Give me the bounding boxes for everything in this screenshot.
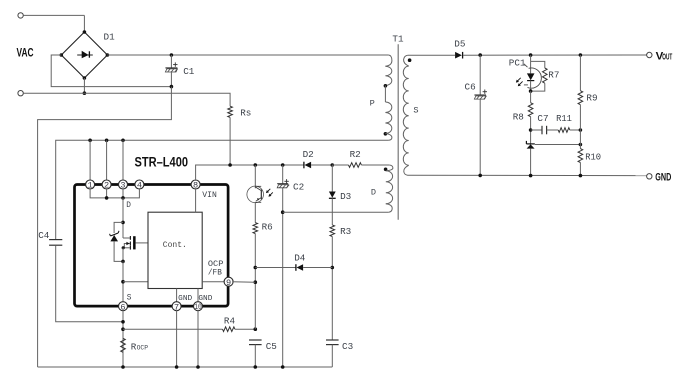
wire zener anode to ground [530,149,532,176]
diode D2 [303,162,305,169]
resistor R6 [253,223,258,234]
capacitor C1 [170,55,172,68]
svg-text:D3: D3 [340,191,351,202]
wire gate to controller [136,242,148,244]
wire S net to R4 [123,328,223,330]
wire C3 to ground [331,345,333,367]
node drain pin1 [88,139,92,143]
transistor Q1 mosfet [123,237,130,239]
resistor Rs [228,106,233,117]
wire D5 to Vout [463,54,647,56]
svg-text:C5: C5 [266,341,277,352]
pin 2 [102,180,111,189]
svg-text:C1: C1 [183,66,195,77]
resistor R9 [579,53,583,57]
capacitor C6 [479,55,481,95]
wire pin6 down [122,310,124,367]
bridge rectifier D1 [61,32,107,78]
svg-text:OUT: OUT [662,52,672,61]
phototransistor PC1 primary side [254,165,256,188]
svg-text:D5: D5 [454,38,465,49]
svg-text:R6: R6 [262,222,273,233]
secondary ground rail [408,174,647,176]
node drain pin3 [121,139,125,143]
wire pin9 to FB net [232,281,255,284]
transformer T1 core [397,44,399,220]
capacitor C3 [326,339,339,341]
resistor R3 [330,225,335,237]
wire source to pin 6 [122,261,124,302]
svg-text:T1: T1 [392,34,404,45]
pin 4 [135,180,144,189]
wire pin jumper D [90,188,139,198]
svg-text:S: S [413,105,418,115]
svg-text:D1: D1 [104,32,116,43]
svg-text:OCP: OCP [137,344,149,352]
svg-text:GND: GND [178,295,192,303]
node C1 bottom [170,85,174,89]
resistor R8 [530,91,532,103]
svg-text:VAC: VAC [17,46,34,60]
wire pin3 drop [122,140,124,180]
node drain internal [121,221,125,225]
node divider top [579,128,583,132]
svg-text:C4: C4 [38,230,50,241]
svg-text:R7: R7 [548,70,559,81]
IC U1 STR-L400 body [75,185,229,307]
node PC1 top [529,53,533,57]
pin 6 [119,302,128,311]
svg-text:D: D [126,202,131,210]
node C6 [478,53,482,57]
transformer secondary S [404,55,409,66]
svg-text:Rs: Rs [240,107,251,118]
wire D2 to node [311,164,332,166]
svg-text:C6: C6 [465,81,476,92]
svg-text:D2: D2 [303,149,314,160]
node primary tap top [384,84,388,88]
light arrows into phototransistor [267,189,271,193]
pin 10 [194,302,203,311]
node D3 top [331,163,335,167]
resistor R2 [349,163,362,168]
transformer primary P [385,55,392,66]
capacitor C7 [531,129,542,131]
terminal AC line input [18,13,23,18]
wire pin1 drop [89,140,91,180]
wire controller to source [123,281,148,283]
node LED cathode [529,89,533,93]
wire controller gnd pins [176,289,178,303]
pin 9 [224,277,233,286]
wire secondary top to D5 [408,54,455,56]
resistor R10 [578,149,583,163]
wire pin2 drop [106,140,108,180]
terminal AC neutral input [18,91,23,96]
photocoupler PC1 LED [530,55,532,73]
svg-text:R9: R9 [586,93,597,104]
node C1 top [170,53,174,57]
svg-text:R4: R4 [224,316,236,327]
wire pin8 vin riser [196,165,304,181]
svg-text:R3: R3 [340,226,351,237]
transformer primary P lower [385,102,391,134]
wire C5 to ground [254,345,256,367]
diode D3 [331,165,333,192]
wire [83,15,85,32]
node aux dot [384,168,388,172]
capacitor C2 [282,165,284,184]
light arrows out of LED [516,78,520,82]
svg-text:D4: D4 [294,253,306,264]
wire zener cathode to divider [535,144,581,146]
transformer aux winding D [386,165,393,171]
svg-text:GND: GND [198,295,212,303]
node D4 right [331,266,335,270]
wire to body zener [114,222,123,233]
pin 3 [119,180,128,189]
controller Cont. box [148,212,202,288]
wire D3 to R3 [331,198,333,225]
wire C4 bottom to S net [56,245,123,322]
wire bridge left vertex to DC minus [51,55,171,87]
wire zener anode to source [114,241,123,261]
pin 8 [191,180,200,189]
pin 1 [86,180,95,189]
node R4 line join [121,327,125,331]
resistor R7 parallel [531,61,545,68]
wire R2 to winding [361,164,389,166]
node aux winding return [281,210,285,214]
diode D5 [455,52,462,59]
resistor Rocp [121,338,126,352]
diode D4 [255,267,296,269]
svg-text:R10: R10 [585,152,601,162]
capacitor C5 [249,339,262,341]
wire pin7 down [176,310,178,367]
node Rs join [228,163,232,167]
wire aux return [283,211,389,213]
node drain pin2 [105,139,109,143]
wire node to R2 [332,164,348,166]
node R4 FB [254,327,258,331]
node pin9 join [254,280,258,284]
node phototransistor join [254,163,258,167]
primary ground rail [38,366,333,368]
svg-text:/FB: /FB [208,270,222,278]
svg-text:GND: GND [655,172,671,184]
node feedback [529,128,533,132]
svg-text:9: 9 [226,278,231,288]
wire primary mid [384,85,386,102]
terminal Vout [647,52,652,57]
svg-text:C2: C2 [293,182,304,193]
node C4 join [121,320,125,324]
wire R6 to FB net [254,234,256,330]
svg-text:Cont.: Cont. [163,240,187,250]
resistor R4 [223,327,235,332]
node source join [121,260,125,264]
wire drain line [56,140,389,239]
wire pin8 to controller [195,188,197,212]
svg-text:C7: C7 [537,113,548,124]
svg-text:P: P [370,99,375,109]
wire [23,14,84,16]
svg-text:PC1: PC1 [509,58,526,69]
terminal GND [647,174,652,179]
svg-text:R8: R8 [513,111,524,122]
svg-text:D: D [371,187,376,197]
wire AC neutral rail [23,93,230,106]
svg-text:R2: R2 [350,149,361,160]
zener body diode [110,233,118,236]
capacitor C4 [49,239,62,241]
node controller source [121,280,125,284]
svg-text:VIN: VIN [202,191,217,200]
wire DC minus down-left [38,87,172,367]
wire DC plus top rail [107,54,388,56]
svg-text:R11: R11 [556,114,572,124]
wire pin10 down [197,310,199,367]
resistor R11 [547,129,559,131]
svg-text:STR–L400: STR–L400 [135,155,189,171]
wire controller to pin9 [202,281,225,283]
node divider mid [579,143,583,147]
wire R3 down [331,237,333,341]
zener diode feedback [526,143,534,145]
svg-text:S: S [127,294,132,302]
wire Rs to VIN node [229,117,231,165]
wire drain to mosfet [122,198,124,238]
wire emitter to R6 [254,203,256,223]
wire source down [122,248,124,262]
svg-text:C3: C3 [342,341,353,352]
node secondary polarity dot [408,58,412,62]
svg-text:OCP: OCP [208,261,224,269]
node C2 join [281,163,285,167]
wire R4 to FB node [235,328,255,330]
wire bridge bottom to neutral rail [83,78,85,93]
node primary tap bottom [384,132,388,136]
wire R8 to node [530,117,532,144]
pin 7 [172,302,181,311]
node D4 join [254,266,258,270]
